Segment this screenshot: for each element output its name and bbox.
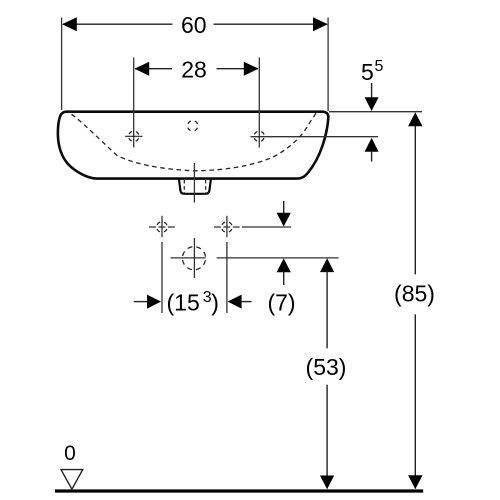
svg-text:5: 5 [361,59,374,85]
svg-text:28: 28 [181,56,207,82]
svg-text:60: 60 [181,12,207,38]
svg-text:): ) [211,289,219,315]
svg-text:0: 0 [64,442,76,465]
svg-text:5: 5 [375,58,384,75]
svg-text:(15: (15 [167,289,200,315]
svg-text:(85): (85) [394,281,435,307]
svg-text:(7): (7) [267,289,295,315]
svg-text:(53): (53) [306,354,347,380]
